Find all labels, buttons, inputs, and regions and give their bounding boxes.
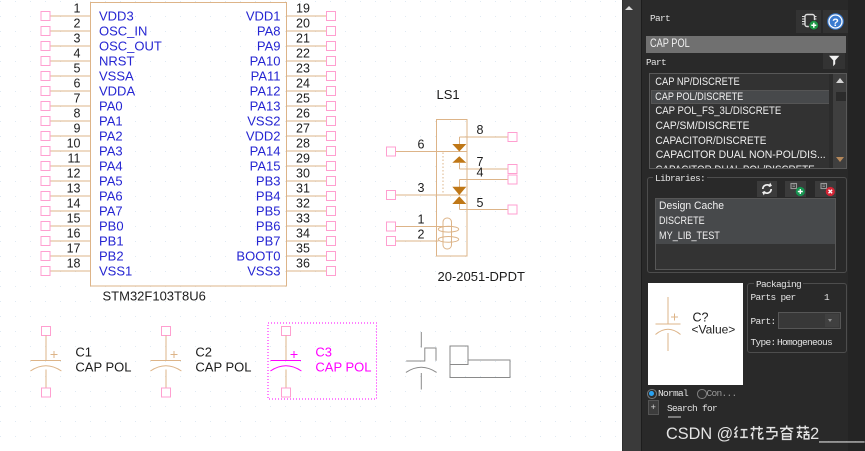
svg-text:26: 26 — [296, 107, 310, 121]
svg-text:PA2: PA2 — [99, 129, 123, 144]
switch LS1 pin 7 (throw contact) — [452, 155, 517, 173]
switch LS1 pin 4 (throw contact) — [452, 166, 517, 195]
ghost reference text placeholder box — [450, 346, 468, 365]
svg-text:15: 15 — [67, 211, 81, 225]
IC pin 2 (OSC_IN) left — [41, 16, 147, 38]
button: help (blue question mark) — [823, 10, 848, 33]
IC pin 10 (PA3) left — [41, 136, 123, 158]
IC pin 26 (VSS2) right — [247, 107, 335, 129]
switch LS1 body — [437, 120, 468, 257]
switch LS1 pin 2 (coil) — [387, 228, 439, 246]
svg-text:20: 20 — [296, 17, 310, 31]
svg-text:27: 27 — [296, 122, 310, 136]
svg-text:24: 24 — [296, 77, 310, 91]
IC pin 25 (PA13) right — [250, 92, 336, 114]
switch LS1 pin 1 (coil) — [387, 213, 452, 231]
IC pin 3 (OSC_OUT) left — [41, 31, 162, 53]
svg-text:C3: C3 — [315, 345, 332, 360]
radio: Convert (unselected) — [697, 389, 707, 399]
svg-text:4: 4 — [477, 166, 484, 180]
capacitor C3 wire bottom — [285, 370, 287, 389]
svg-text:19: 19 — [296, 2, 310, 16]
button: add library (green plus) — [785, 181, 806, 197]
svg-text:35: 35 — [296, 242, 310, 256]
IC pin 20 (PA8) right — [257, 17, 336, 39]
ghost capacitor symbol (part attached to cursor) — [406, 332, 437, 390]
svg-text:7: 7 — [74, 91, 81, 105]
svg-text:8: 8 — [74, 106, 81, 120]
svg-text:OSC_IN: OSC_IN — [99, 24, 147, 39]
part preview box — [648, 283, 744, 386]
svg-text:PB1: PB1 — [99, 234, 124, 249]
IC pin 19 (VDD1) right — [246, 2, 336, 24]
capacitor C3 selection box (dashed) — [268, 323, 377, 399]
svg-text:VSS3: VSS3 — [247, 264, 280, 279]
capacitor C3 terminal bottom — [281, 388, 290, 397]
clipped next row (Part) — [668, 416, 681, 419]
capacitor C2 wire top — [165, 336, 167, 361]
IC pin 23 (PA11) right — [251, 62, 336, 84]
IC pin 30 (PB3) right — [256, 167, 336, 189]
svg-text:PB4: PB4 — [256, 189, 281, 204]
svg-text:6: 6 — [74, 76, 81, 90]
switch LS1 pin 3 (pole) — [387, 181, 468, 199]
capacitor C2 bottom plate (arc) — [150, 366, 181, 371]
svg-text:PB3: PB3 — [256, 174, 281, 189]
capacitor C3 plus sign — [290, 351, 297, 358]
preview capacitor symbol — [655, 297, 680, 351]
svg-text:1: 1 — [74, 1, 81, 15]
button: remove library (red x) — [815, 181, 836, 197]
svg-text:PA5: PA5 — [99, 174, 123, 189]
svg-text:30: 30 — [296, 167, 310, 181]
svg-text:22: 22 — [296, 47, 310, 61]
IC pin 29 (PA15) right — [250, 152, 336, 174]
part number combo box — [778, 312, 841, 329]
IC pin 28 (PA14) right — [250, 137, 336, 159]
svg-text:16: 16 — [67, 226, 81, 240]
capacitor C1 terminal top — [41, 327, 50, 336]
place part panel background — [642, 0, 865, 451]
IC pin 24 (PA12) right — [250, 77, 336, 99]
capacitor C2 terminal top — [161, 327, 170, 336]
svg-text:4: 4 — [74, 46, 81, 60]
svg-text:3: 3 — [74, 31, 81, 45]
svg-text:10: 10 — [67, 136, 81, 150]
IC pin 31 (PB4) right — [256, 182, 336, 204]
packaging group box — [747, 283, 847, 353]
IC pin 36 (VSS3) right — [247, 257, 335, 279]
capacitor C1 terminal bottom — [41, 388, 50, 397]
ghost value text placeholder box — [450, 360, 510, 377]
button: filter (funnel icon) — [823, 53, 845, 69]
svg-text:36: 36 — [296, 257, 310, 271]
svg-text:13: 13 — [67, 181, 81, 195]
svg-text:18: 18 — [67, 256, 81, 270]
svg-text:3: 3 — [418, 181, 425, 195]
svg-text:VDD1: VDD1 — [246, 9, 281, 24]
svg-text:STM32F103T8U6: STM32F103T8U6 — [103, 289, 206, 304]
svg-text:21: 21 — [296, 32, 310, 46]
svg-text:PA13: PA13 — [250, 99, 281, 114]
switch LS1 pin 6 (pole) — [387, 138, 468, 156]
svg-text:2: 2 — [74, 16, 81, 30]
label Part (top) — [650, 13, 670, 24]
svg-text:OSC_OUT: OSC_OUT — [99, 39, 162, 54]
IC pin 6 (VDDA) left — [41, 76, 135, 98]
svg-text:PB7: PB7 — [256, 234, 281, 249]
label Part (list) — [646, 57, 666, 68]
svg-text:VDD3: VDD3 — [99, 9, 134, 24]
capacitor C2 plus sign — [170, 351, 177, 358]
svg-text:PA11: PA11 — [251, 69, 281, 84]
IC pin 32 (PB5) right — [256, 197, 336, 219]
svg-text:PA4: PA4 — [99, 159, 123, 174]
svg-text:8: 8 — [477, 123, 484, 137]
svg-text:28: 28 — [296, 137, 310, 151]
svg-text:31: 31 — [296, 182, 310, 196]
svg-text:1: 1 — [418, 213, 425, 227]
IC pin 16 (PB1) left — [41, 226, 124, 248]
svg-text:20-2051-DPDT: 20-2051-DPDT — [438, 269, 525, 284]
button: expand search — [648, 400, 660, 415]
svg-text:C1: C1 — [75, 345, 92, 360]
svg-text:2: 2 — [418, 228, 425, 242]
svg-text:PA15: PA15 — [250, 159, 281, 174]
IC pin 34 (PB7) right — [256, 227, 336, 249]
svg-text:VDD2: VDD2 — [246, 129, 281, 144]
svg-text:PA0: PA0 — [99, 99, 123, 114]
capacitor C1 plus sign — [50, 351, 57, 358]
svg-text:11: 11 — [68, 151, 81, 165]
part list box — [649, 73, 847, 170]
svg-text:PB2: PB2 — [99, 249, 124, 264]
IC pin 18 (VSS1) left — [41, 256, 132, 278]
IC pin 5 (VSSA) left — [41, 61, 134, 83]
svg-text:25: 25 — [296, 92, 310, 106]
IC pin 22 (PA10) right — [250, 47, 336, 69]
capacitor C3 bottom plate (arc) — [270, 366, 301, 371]
IC pin 8 (PA1) left — [41, 106, 123, 128]
libraries list box — [655, 198, 837, 270]
svg-text:VSS1: VSS1 — [99, 264, 132, 279]
capacitor C2 terminal bottom — [161, 388, 170, 397]
svg-text:5: 5 — [74, 61, 81, 75]
svg-text:PB0: PB0 — [99, 219, 124, 234]
capacitor C1 bottom plate (arc) — [30, 366, 61, 371]
IC pin 35 (BOOT0) right — [236, 242, 335, 264]
svg-text:PA8: PA8 — [257, 24, 281, 39]
IC pin 4 (NRST) left — [41, 46, 134, 68]
svg-text:CAP POL: CAP POL — [315, 360, 371, 375]
svg-text:PA3: PA3 — [99, 144, 123, 159]
svg-text:CAP POL: CAP POL — [195, 360, 251, 375]
capacitor C1 wire bottom — [45, 370, 47, 389]
svg-text:PA7: PA7 — [99, 204, 123, 219]
svg-text:PA9: PA9 — [257, 39, 281, 54]
capacitor C3 top plate — [271, 360, 301, 362]
button: place IC (chip with green plus) — [796, 10, 822, 33]
svg-text:NRST: NRST — [99, 54, 134, 69]
button: refresh libraries — [757, 181, 777, 197]
svg-text:CAP POL: CAP POL — [75, 360, 131, 375]
svg-text:<Value>: <Value> — [691, 322, 735, 336]
IC pin 33 (PB6) right — [256, 212, 336, 234]
svg-text:6: 6 — [418, 138, 425, 152]
svg-text:9: 9 — [74, 121, 81, 135]
schematic canvas — [0, 0, 622, 451]
IC pin 21 (PA9) right — [257, 32, 336, 54]
IC pin 1 (VDD3) left — [41, 1, 134, 23]
svg-text:17: 17 — [67, 241, 81, 255]
svg-text:BOOT0: BOOT0 — [236, 249, 280, 264]
svg-text:34: 34 — [296, 227, 310, 241]
watermark CSDN — [666, 425, 864, 444]
svg-text:23: 23 — [296, 62, 310, 76]
IC pin 12 (PA5) left — [41, 166, 123, 188]
svg-text:VSSA: VSSA — [99, 69, 134, 84]
svg-text:PA12: PA12 — [250, 84, 281, 99]
svg-text:VSS2: VSS2 — [247, 114, 280, 129]
IC pin 17 (PB2) left — [41, 241, 124, 263]
svg-text:VDDA: VDDA — [99, 84, 135, 99]
switch LS1 coil (solenoid) — [438, 218, 458, 249]
IC pin 7 (PA0) left — [41, 91, 123, 113]
svg-text:C2: C2 — [195, 345, 212, 360]
svg-text:32: 32 — [296, 197, 310, 211]
svg-text:PB5: PB5 — [256, 204, 281, 219]
svg-text:?: ? — [832, 17, 839, 29]
IC U1 STM32F103T8U6 body — [91, 3, 287, 287]
svg-text:33: 33 — [296, 212, 310, 226]
capacitor C3 wire top — [285, 336, 287, 361]
capacitor C1 wire top — [45, 336, 47, 361]
svg-text:PA10: PA10 — [250, 54, 281, 69]
svg-text:PA14: PA14 — [250, 144, 281, 159]
svg-text:PA6: PA6 — [99, 189, 123, 204]
svg-text:PB6: PB6 — [256, 219, 281, 234]
radio: Normal (selected) — [647, 389, 657, 399]
IC pin 13 (PA6) left — [41, 181, 123, 203]
switch LS1 pin 5 (throw contact) — [452, 196, 517, 214]
IC pin 15 (PB0) left — [41, 211, 124, 233]
IC pin 11 (PA4) left — [41, 151, 123, 173]
capacitor C2 top plate — [151, 360, 181, 362]
svg-text:PA1: PA1 — [99, 114, 123, 129]
svg-text:LS1: LS1 — [437, 87, 460, 102]
svg-text:5: 5 — [477, 196, 484, 210]
libraries group box — [647, 177, 847, 273]
schematic grid background — [0, 0, 622, 451]
capacitor C3 terminal top — [281, 327, 290, 336]
IC pin 14 (PA7) left — [41, 196, 123, 218]
svg-text:12: 12 — [67, 166, 81, 180]
svg-text:29: 29 — [296, 152, 310, 166]
part name search input: CAP POL — [646, 36, 846, 54]
switch LS1 mechanical link (dashed) — [442, 153, 444, 196]
IC pin 9 (PA2) left — [41, 121, 123, 143]
switch LS1 pin 8 (throw contact) — [452, 123, 517, 151]
IC pin 27 (VDD2) right — [246, 122, 336, 144]
svg-text:14: 14 — [67, 196, 81, 210]
schematic window vertical scrollbar — [622, 0, 643, 451]
capacitor C1 top plate — [31, 360, 61, 362]
capacitor C2 wire bottom — [165, 370, 167, 389]
